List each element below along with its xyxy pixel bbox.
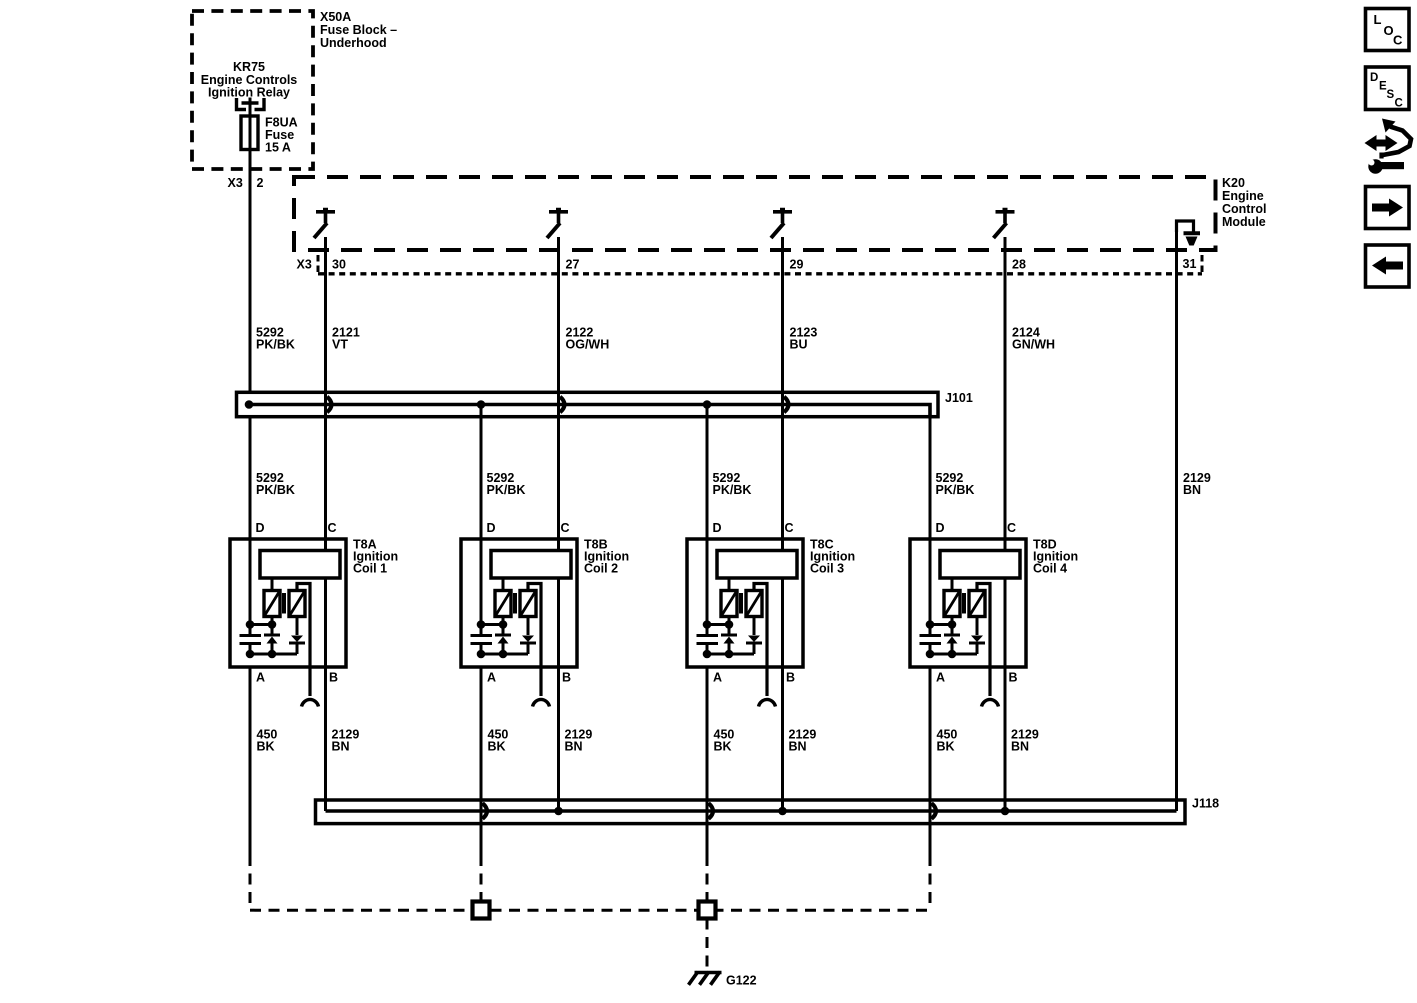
svg-text:PK/BK: PK/BK (936, 483, 975, 497)
wire 2129 BN from ECM ground (1175, 232, 1178, 811)
svg-text:BN: BN (332, 740, 350, 754)
svg-text:A: A (713, 671, 722, 685)
svg-text:X50A: X50A (320, 10, 351, 24)
ignition coil T8C (Coil 3) box (687, 539, 803, 667)
dashed wire coil2 450 BK to splice (480, 825, 483, 855)
icon button back (left arrow) (1366, 245, 1410, 287)
icon wiring-route tool (arrows + wrench) (1365, 119, 1412, 174)
svg-text:VT: VT (332, 338, 348, 352)
coil T8D zener diode (944, 635, 960, 652)
wire 2124 GN/WH (1004, 237, 1007, 811)
coil T8C junction dots (703, 620, 734, 658)
wire label 2129 BN (right) (1183, 471, 1211, 497)
coil T8B secondary winding (520, 591, 536, 617)
icon button next (right arrow) (1366, 187, 1410, 229)
svg-text:27: 27 (566, 258, 580, 272)
coil T8B secondary diode (520, 617, 536, 655)
coil T8C secondary diode (746, 617, 762, 655)
svg-text:D: D (936, 521, 945, 535)
coil T8C pin labels (713, 521, 796, 685)
ECM driver switch 3 (773, 210, 792, 224)
wire 2122 OG/WH (557, 237, 560, 811)
label T8B Ignition Coil 2 (584, 538, 629, 576)
svg-text:A: A (256, 671, 265, 685)
ECM driver switch 1 (316, 210, 335, 224)
ground G122 symbol (695, 971, 722, 975)
coil T8D spark plug gap (982, 699, 999, 706)
svg-text:B: B (329, 671, 338, 685)
coil T8C junction row wires (707, 617, 754, 655)
coil T8D junction dots (926, 620, 957, 658)
coil T8A core (282, 593, 286, 614)
connector X3 and pin numbers (297, 257, 1197, 272)
svg-text:BN: BN (789, 740, 807, 754)
svg-text:C: C (1395, 98, 1403, 110)
coil T8A junction dots (246, 620, 277, 658)
label 5292 PK/BK (coil 3) (713, 471, 752, 497)
svg-text:A: A (936, 671, 945, 685)
svg-text:Module: Module (1222, 215, 1266, 229)
svg-text:S: S (1387, 89, 1395, 101)
svg-text:31: 31 (1183, 257, 1197, 271)
coil T8D secondary output wire (977, 584, 990, 697)
svg-text:Coil 2: Coil 2 (584, 562, 618, 576)
coil T8C primary winding (721, 578, 737, 617)
coil T8A capacitor (240, 628, 262, 652)
label K20 Engine Control Module (1222, 176, 1266, 229)
coil T8D core (962, 593, 966, 614)
svg-text:Ignition Relay: Ignition Relay (208, 86, 290, 100)
coil T8B secondary output wire (528, 584, 541, 697)
svg-text:BK: BK (488, 740, 506, 754)
coil T8B pin labels (487, 521, 572, 685)
wire 2129 BN below coil 2 (part of C wire) (488, 728, 593, 754)
svg-text:Coil 4: Coil 4 (1033, 562, 1067, 576)
wire 2129 BN below coil 1 (part of C wire) (257, 728, 360, 754)
wire 450 BK below coil 3 (706, 667, 709, 855)
svg-text:Fuse Block –: Fuse Block – (320, 23, 397, 37)
svg-text:29: 29 (790, 258, 804, 272)
label G122 (726, 974, 757, 988)
label T8C Ignition Coil 3 (810, 538, 855, 576)
coil T8C spark plug gap (759, 699, 776, 706)
svg-text:Control: Control (1222, 202, 1266, 216)
coil T8A primary winding (264, 578, 280, 617)
coil T8A secondary winding (289, 591, 305, 617)
coil T8B internal connector bar (491, 551, 571, 579)
svg-text:BK: BK (257, 740, 275, 754)
svg-text:J101: J101 (945, 391, 973, 405)
coil T8C internal connector bar (717, 551, 797, 579)
coil T8B junction dots (477, 620, 508, 658)
relay KR75 contact symbol (237, 98, 247, 110)
svg-text:28: 28 (1012, 258, 1026, 272)
svg-text:B: B (562, 671, 571, 685)
svg-text:B: B (786, 671, 795, 685)
svg-text:X3: X3 (228, 176, 243, 190)
svg-text:PK/BK: PK/BK (256, 338, 295, 352)
svg-text:K20: K20 (1222, 176, 1245, 190)
ground rail dashed (250, 909, 930, 912)
coil T8D junction row wires (930, 617, 977, 655)
label 5292 PK/BK (coil 1) (256, 471, 295, 497)
ECM driver switch 4 (996, 210, 1015, 224)
coil T8D secondary diode (969, 617, 985, 655)
label T8A Ignition Coil 1 (353, 538, 398, 576)
ECM driver switch 2 (549, 210, 568, 224)
svg-text:C: C (328, 521, 337, 535)
dashed wire coil4 450 BK to ground rail (929, 825, 932, 855)
wire 5292 PK/BK to coil 2 D (480, 405, 483, 635)
fuse block X50A dashed box (192, 11, 313, 169)
svg-text:PK/BK: PK/BK (487, 483, 526, 497)
label 5292 PK/BK (coil 4) (936, 471, 975, 497)
ignition coil T8B (Coil 2) box (461, 539, 577, 667)
svg-text:C: C (785, 521, 794, 535)
coil T8A secondary diode (289, 617, 305, 655)
splice pack J118 (316, 800, 1186, 824)
svg-text:2: 2 (257, 176, 264, 190)
svg-text:OG/WH: OG/WH (566, 338, 610, 352)
svg-text:KR75: KR75 (233, 60, 265, 74)
label KR75 Engine Controls Ignition Relay (201, 60, 298, 100)
wire labels row 1 (332, 326, 1055, 352)
svg-text:15 A: 15 A (265, 141, 291, 155)
coil T8D pin labels (936, 521, 1018, 685)
coil T8D capacitor (920, 628, 942, 652)
wire 2129 BN below coil 4 (part of C wire) (937, 728, 1039, 754)
coil T8A zener diode (264, 635, 280, 652)
splice square S2 (699, 902, 716, 919)
svg-text:Coil 3: Coil 3 (810, 562, 844, 576)
coil T8B core (513, 593, 517, 614)
label X50A Fuse Block - Underhood (320, 10, 397, 50)
coil T8B capacitor (471, 628, 493, 652)
coil T8C secondary winding (746, 591, 762, 617)
wire 450 BK below coil 4 (929, 667, 932, 855)
coil T8D secondary winding (969, 591, 985, 617)
svg-text:BN: BN (1011, 740, 1029, 754)
wire 2123 BU (781, 237, 784, 811)
ECM connector face dotted line (318, 272, 1202, 275)
dashed wire coil3 450 BK to splice (706, 825, 709, 855)
wire 5292 PK/BK to coil 4 D (929, 405, 932, 635)
dashed wire splice to G122 (706, 919, 709, 971)
dashed wire coil1 450 BK to ground rail (249, 855, 252, 910)
label F8UA Fuse 15 A (265, 116, 298, 155)
wire label 5292 PK/BK (256, 326, 295, 352)
splice pack J101 (237, 392, 939, 416)
coil T8A internal connector bar (260, 551, 340, 579)
coil T8B primary winding (495, 578, 511, 617)
svg-text:Engine: Engine (1222, 189, 1264, 203)
fuse F8UA body (249, 116, 252, 150)
svg-text:G122: G122 (726, 974, 757, 988)
wire 2129 BN below coil 3 (part of C wire) (714, 728, 817, 754)
ECM K20 dashed box (294, 177, 1216, 250)
ECM internal ground symbol (pin 31) (1177, 221, 1194, 232)
connector label X3 pin 2 (228, 176, 264, 190)
svg-text:BK: BK (937, 740, 955, 754)
svg-text:BN: BN (565, 740, 583, 754)
svg-text:C: C (1393, 33, 1403, 48)
svg-text:D: D (256, 521, 265, 535)
J118 junction dots (554, 807, 563, 816)
label J118 (1192, 797, 1219, 811)
wire 2121 VT (324, 237, 327, 811)
svg-text:BK: BK (714, 740, 732, 754)
wire 5292 fuse to J101 (249, 150, 252, 393)
J118 pass-through chevrons (483, 803, 488, 819)
label 5292 PK/BK (coil 2) (487, 471, 526, 497)
coil T8A secondary output wire (297, 584, 310, 697)
svg-text:A: A (487, 671, 496, 685)
coil T8A pin labels (256, 521, 339, 685)
coil T8C secondary output wire (754, 584, 767, 697)
coil T8B junction row wires (481, 617, 528, 655)
J101 pass-through chevrons (327, 397, 332, 413)
wire relay to fuse (249, 98, 252, 117)
svg-text:B: B (1009, 671, 1018, 685)
label T8D Ignition Coil 4 (1033, 538, 1078, 576)
wire 450 BK below coil 1 (249, 667, 252, 855)
svg-text:BU: BU (790, 338, 808, 352)
label J101 (945, 391, 973, 405)
ignition coil T8A (Coil 1) box (230, 539, 346, 667)
svg-text:BN: BN (1183, 483, 1201, 497)
splice square S1 (473, 902, 490, 919)
svg-text:Underhood: Underhood (320, 36, 387, 50)
svg-text:C: C (1007, 521, 1016, 535)
J101 junction dots (245, 400, 254, 409)
wire 450 BK below coil 2 (480, 667, 483, 855)
svg-text:GN/WH: GN/WH (1012, 338, 1055, 352)
svg-text:PK/BK: PK/BK (256, 483, 295, 497)
svg-text:J118: J118 (1192, 797, 1219, 811)
coil T8C core (739, 593, 743, 614)
svg-text:C: C (561, 521, 570, 535)
svg-text:D: D (1370, 72, 1378, 84)
coil T8A junction row wires (250, 617, 297, 655)
coil T8B zener diode (495, 635, 511, 652)
coil T8C capacitor (697, 628, 719, 652)
svg-text:X3: X3 (297, 258, 312, 272)
svg-text:D: D (487, 521, 496, 535)
wire 5292 PK/BK to coil 3 D (706, 405, 709, 635)
icon button LOC (1366, 9, 1410, 51)
svg-text:D: D (713, 521, 722, 535)
coil T8D internal connector bar (940, 551, 1020, 579)
ignition coil T8D (Coil 4) box (910, 539, 1026, 667)
coil T8D primary winding (944, 578, 960, 617)
coil T8C zener diode (721, 635, 737, 652)
icon button DESC (1366, 67, 1410, 110)
svg-text:Coil 1: Coil 1 (353, 562, 387, 576)
coil T8B spark plug gap (533, 699, 550, 706)
wire 5292 PK/BK to coil 1 D (249, 418, 252, 635)
svg-text:L: L (1374, 12, 1382, 27)
svg-text:PK/BK: PK/BK (713, 483, 752, 497)
coil T8A spark plug gap (302, 699, 319, 706)
svg-text:30: 30 (332, 258, 346, 272)
